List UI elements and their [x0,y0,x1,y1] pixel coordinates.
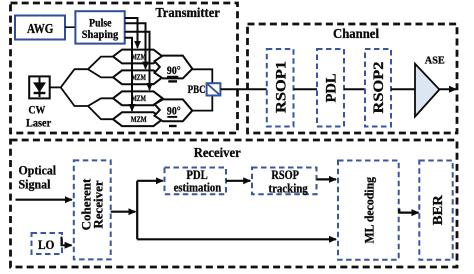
RSOP2 box [365,49,391,127]
wire laser to splitter [50,86,61,88]
svg-text:PBC: PBC [188,82,206,96]
splitter tree lower branch [61,87,114,119]
RSOP1 box [267,49,294,127]
wire AWG to pulse shaping [65,26,75,28]
RSOP tracking box [252,167,317,196]
svg-text:ML decoding: ML decoding [362,176,376,243]
drive wire 4 (pulse shaping to MZM4) [125,38,132,111]
arrow RSOP tracking to ML decoding [317,178,337,180]
svg-text:90°: 90° [167,106,181,118]
MZM4 modulator [113,112,163,126]
arrow junction to PDL estimation [137,180,163,182]
svg-text:RSOP1: RSOP1 [273,61,289,113]
svg-text:90°: 90° [167,65,181,77]
ML decoding box [338,161,399,260]
wire lower branch to ML decoding [137,238,336,240]
svg-text:Signal: Signal [19,176,51,191]
svg-text:tracking: tracking [268,180,308,195]
transmitter box [11,3,238,133]
wire ASE to channel output arrow [439,88,456,90]
junction vertical wire [136,181,138,240]
svg-text:Receiver: Receiver [91,180,106,229]
drive wire 3 (pulse shaping to MZM3) [125,32,150,90]
svg-text:AWG: AWG [27,21,54,36]
CW Laser label [26,103,52,130]
svg-text:RSOP2: RSOP2 [371,62,387,114]
coherent receiver box [74,160,111,259]
CW laser box [29,76,50,98]
wire RSOP1 to PDL [294,88,318,90]
svg-text:estimation: estimation [174,180,222,195]
wire LO to coherent receiver [62,237,72,246]
MZM1 modulator [113,50,163,64]
wire PBC to RSOP1 [220,88,266,90]
svg-text:Receiver: Receiver [194,145,241,160]
receiver box [11,140,458,267]
wire combiner2 to PBC [192,96,212,111]
wire RSOP2 to ASE amplifier [391,88,415,90]
AWG box [15,16,65,40]
svg-text:PDL: PDL [323,73,339,102]
PDL box [317,49,344,127]
channel box [248,24,458,133]
LO box [32,233,63,254]
svg-text:LO: LO [38,237,55,252]
drive wire 2 (pulse shaping to MZM2) [125,23,146,68]
pulse shaping box [75,11,124,43]
svg-text:MZM: MZM [131,72,146,82]
arrow coherent receiver to junction [111,211,136,213]
svg-text:Channel: Channel [333,26,379,41]
optical signal label [19,163,57,192]
arrow PDL estimation to RSOP tracking [226,180,250,182]
ASE amplifier [415,64,439,117]
svg-text:MZM: MZM [131,114,147,124]
MZM3 modulator [113,91,163,105]
arrow optical signal to coherent receiver [16,199,72,201]
PDL estimation box [165,167,227,195]
wire PDL to RSOP2 [344,88,365,90]
arrow ML decoding to BER [399,209,418,213]
splitter tree upper branch [61,57,114,88]
drive wire 1 (pulse shaping to MZM1) [125,18,138,48]
90 degree hybrid combiner 1 [155,56,193,82]
wire combiner1 to PBC [192,69,212,83]
90 degree hybrid combiner 2 [155,99,193,126]
svg-text:BER: BER [430,195,445,225]
svg-text:MZM: MZM [131,93,146,103]
svg-text:Transmitter: Transmitter [155,5,220,20]
PBC polarization beam combiner [207,83,221,95]
svg-text:Shaping: Shaping [82,27,119,41]
svg-text:Laser: Laser [26,115,52,129]
MZM2 modulator [113,70,163,84]
svg-text:MZM: MZM [131,51,146,61]
BER box [419,161,452,260]
svg-text:ASE: ASE [425,55,445,67]
